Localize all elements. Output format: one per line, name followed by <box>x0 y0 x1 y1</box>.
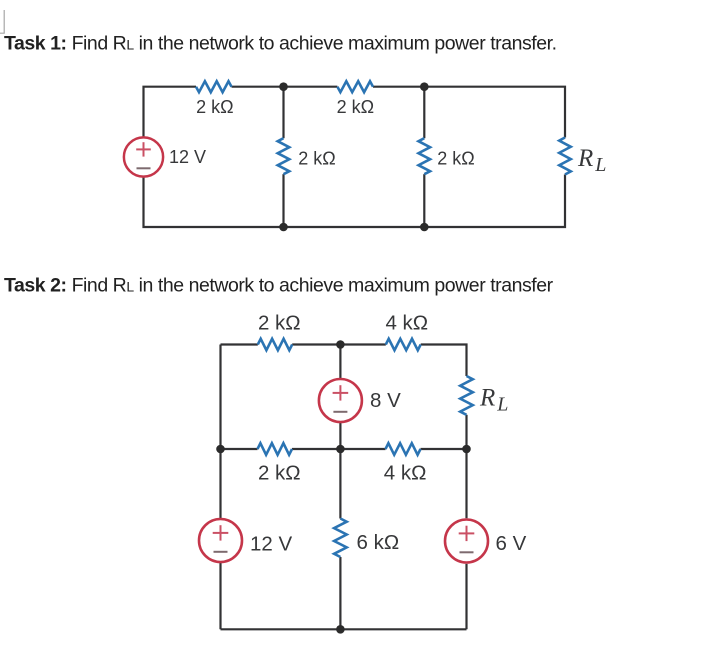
wire right rail lower <box>465 564 467 630</box>
wire mid rail 8V lower <box>339 423 341 449</box>
node dot A top <box>279 82 288 91</box>
wire top right segment <box>373 87 565 138</box>
resistor R3 2k vertical at node A <box>278 138 290 174</box>
wire branch node A lower <box>282 174 284 227</box>
Task 1 circuit <box>144 87 566 227</box>
resistor 4k mid task2 <box>386 443 421 455</box>
source V4 minus <box>460 551 474 553</box>
svg-text:2 kΩ: 2 kΩ <box>437 149 474 169</box>
wire mid rail lower <box>339 557 341 629</box>
source V4 plus <box>459 526 475 541</box>
source V1 12V circle <box>124 137 163 176</box>
wire bottom rail <box>144 175 566 228</box>
node dot right-mid task2 <box>462 445 471 454</box>
svg-text:4 kΩ: 4 kΩ <box>384 462 427 485</box>
source V3 12V circle <box>199 519 242 562</box>
wire mid rail 8V upper <box>339 345 341 379</box>
resistor 2k mid task2 <box>258 443 293 455</box>
node dot mid-top task2 <box>336 340 345 349</box>
source V2 8V circle <box>319 379 362 422</box>
resistor 6k task2 <box>334 519 347 558</box>
wire branch node B lower <box>423 174 425 227</box>
svg-text:12 V: 12 V <box>169 147 206 167</box>
resistor 2k top task2 <box>258 339 292 350</box>
svg-text:4 kΩ: 4 kΩ <box>385 312 428 335</box>
wire middle row left <box>221 448 258 450</box>
resistor RL task1 <box>559 138 571 175</box>
wire top between R1 and R2 <box>232 86 338 88</box>
resistor R2 2k top-right <box>337 81 373 92</box>
resistor RL task2 <box>460 376 473 415</box>
svg-text:Task 2: Find RL in the network: Task 2: Find RL in the network to achiev… <box>4 275 554 297</box>
wire top right corner <box>421 345 467 377</box>
corner crop mark <box>0 10 4 33</box>
wire branch node B upper <box>423 87 425 139</box>
resistor R4 2k vertical at node B <box>419 138 431 174</box>
svg-text:6 V: 6 V <box>496 532 527 555</box>
node dot mid-bottom task2 <box>336 625 345 634</box>
wire right rail RL lower <box>465 415 467 449</box>
svg-text:2 kΩ: 2 kΩ <box>258 462 301 485</box>
svg-text:12 V: 12 V <box>250 533 292 556</box>
resistor R1 2k top-left <box>196 81 232 92</box>
svg-text:2 kΩ: 2 kΩ <box>196 97 233 117</box>
node dot B top <box>420 82 429 91</box>
wire middle row right <box>421 448 467 450</box>
wire middle row center <box>292 448 386 450</box>
wire left rail lower <box>219 563 221 629</box>
source V1 plus <box>136 142 151 156</box>
wire left rail to 12V <box>219 449 221 518</box>
node dot B bottom <box>420 223 429 232</box>
wire branch node A upper <box>282 87 284 139</box>
svg-text:2 kΩ: 2 kΩ <box>258 312 301 335</box>
node dot A bottom <box>279 223 288 232</box>
wire top-left segment <box>144 87 197 137</box>
wire left rail upper <box>219 345 221 450</box>
source V2 plus <box>333 385 349 400</box>
wire right rail to 6V <box>465 449 467 518</box>
source V3 plus <box>213 525 229 540</box>
wire bottom rail <box>221 628 467 630</box>
svg-text:8 V: 8 V <box>370 389 401 412</box>
svg-text:Task 1: Find RL in the network: Task 1: Find RL in the network to achiev… <box>4 33 557 55</box>
source V2 minus <box>333 411 347 413</box>
svg-text:6 kΩ: 6 kΩ <box>357 531 400 554</box>
source V4 6V circle <box>445 520 488 563</box>
node dot left-mid task2 <box>216 445 225 454</box>
Task 2 circuit <box>221 345 467 630</box>
wire top-left corner <box>221 343 258 345</box>
wire top mid segment <box>292 343 386 345</box>
source V1 minus <box>137 167 151 169</box>
svg-text:2 kΩ: 2 kΩ <box>337 97 374 117</box>
source V3 minus <box>214 551 228 553</box>
node dot center task2 <box>336 445 345 454</box>
resistor 4k top task2 <box>386 339 421 350</box>
svg-text:2 kΩ: 2 kΩ <box>298 149 335 169</box>
wire mid rail to 6k <box>339 449 341 519</box>
